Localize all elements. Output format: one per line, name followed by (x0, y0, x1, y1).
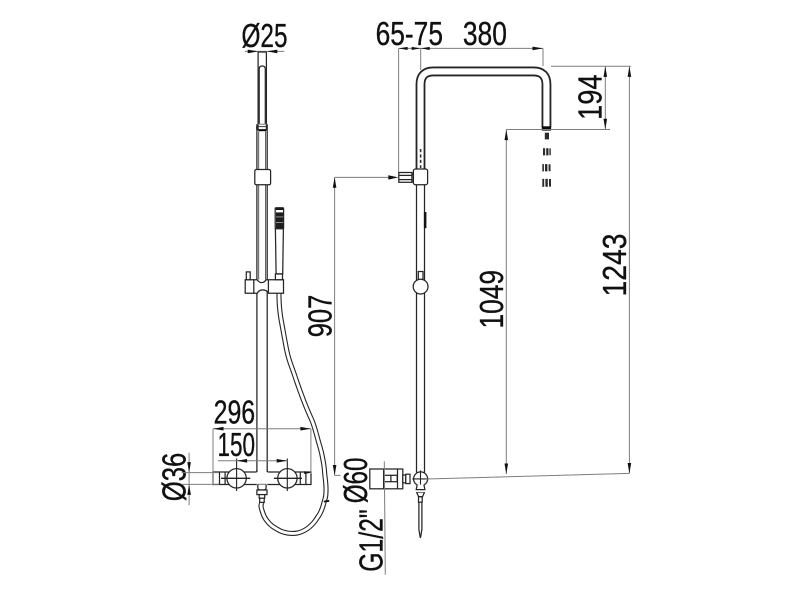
dimension 296 line (213, 428, 311, 430)
hose nut under handle (275, 274, 282, 280)
svg-text:G1/2": G1/2" (352, 509, 389, 571)
dimension 1243 line (628, 66, 630, 473)
spray dashes row 4 (542, 179, 551, 187)
temperature probe stem (419, 497, 423, 503)
extension line at wall connector (398, 48, 400, 172)
side slider knob (413, 279, 428, 294)
extension line at column axis (420, 48, 422, 70)
side mixer neck (403, 475, 406, 483)
side mixer channel and square (385, 474, 391, 476)
side valve flare below (416, 485, 425, 490)
svg-text:1049: 1049 (473, 270, 510, 329)
top pole of shower rail (257, 52, 259, 131)
dimension Ø36 extension lines (182, 472, 219, 474)
side column rod (416, 185, 418, 473)
mixer hose nut (257, 490, 267, 495)
supply flow arrow (388, 175, 398, 179)
bottom right extension line (slanted) (427, 473, 630, 479)
mixer cap divider lines (219, 472, 221, 485)
hand shower spray face (276, 212, 283, 228)
spray dashes row 1 (545, 133, 549, 140)
dimension Ø25 arrow right (267, 50, 278, 54)
shower arm tube (421, 71, 547, 169)
leader line for G1/2 (384, 461, 385, 575)
bracket inner edge left (253, 280, 255, 294)
svg-text:Ø60: Ø60 (337, 458, 374, 504)
spray dashes row 3 (542, 164, 550, 171)
inner lines of sleeve (258, 132, 260, 280)
dimension Ø36 line (188, 453, 190, 505)
dimension line 65-75 / 380 (399, 47, 543, 49)
supply connector taper (412, 174, 414, 181)
side mixer washer (406, 474, 410, 483)
mixer hose taper (259, 495, 265, 499)
hand shower handle (275, 229, 283, 274)
knob center cross right (274, 477, 302, 479)
side mixer body (370, 469, 403, 489)
side valve cross (412, 478, 429, 480)
mixer hose band (260, 498, 265, 502)
svg-text:296: 296 (214, 394, 256, 431)
hand shower head (275, 208, 283, 229)
side slider knob stem (418, 272, 423, 280)
hand shower head top strip (276, 208, 283, 210)
shower head outlet cap (542, 126, 551, 130)
supply pipe line from wall (335, 176, 389, 178)
lower sleeve of shower rail (256, 124, 258, 472)
svg-text:380: 380 (463, 15, 507, 52)
side block on column (413, 169, 427, 185)
collar joint on rail (257, 123, 267, 125)
svg-text:194: 194 (572, 74, 609, 120)
hose (front view) (261, 278, 326, 534)
slider bracket body (245, 280, 283, 294)
dimension 1049 line (505, 130, 507, 475)
svg-text:Ø36: Ø36 (156, 453, 193, 502)
extension line at arm end (542, 48, 544, 66)
mixer knob left (227, 469, 246, 488)
black band on rail joint (259, 129, 267, 131)
mixer bar outline (213, 472, 311, 485)
dimension 296 extension lines (212, 429, 214, 486)
arm inner hidden line (dashed) (420, 149, 422, 168)
mixer knob right (278, 469, 297, 488)
top right extension line (551, 65, 631, 67)
svg-text:907: 907 (301, 295, 338, 338)
supply connector cylinder (399, 173, 412, 183)
side valve circle (414, 472, 428, 486)
dimension Ø25 line (245, 50, 284, 52)
bracket lever tab (246, 272, 250, 280)
mixer outlet cup (258, 485, 266, 491)
tick arrow at mixer right corner (304, 471, 311, 474)
bracket inner edge right (267, 280, 269, 294)
slider stop block on rail (255, 170, 271, 185)
svg-text:1243: 1243 (596, 234, 633, 297)
inner tube dome of rail (259, 66, 265, 124)
svg-text:Ø25: Ø25 (242, 17, 288, 54)
svg-text:65-75: 65-75 (376, 15, 443, 52)
dimension 150 line (218, 460, 287, 462)
side lever dark mark (424, 212, 427, 228)
dimension 194 line (604, 66, 606, 129)
dimension Ø25 arrow left (248, 50, 259, 54)
hose break tick (324, 500, 329, 503)
spray dashes row 2 (543, 148, 551, 155)
svg-text:150: 150 (218, 426, 256, 463)
mixer rod fillets (256, 470, 268, 472)
mid extension line at outlet level (506, 129, 610, 131)
dimension 907 line (334, 177, 336, 475)
knob center cross left (221, 477, 250, 479)
